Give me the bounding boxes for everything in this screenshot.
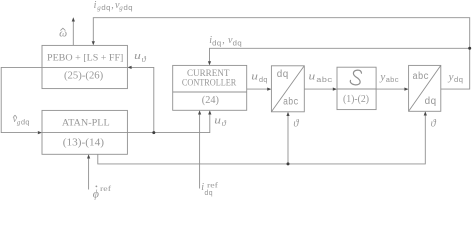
svg-text:abc: abc (386, 77, 399, 85)
label y_dq (448, 72, 464, 85)
label i_dq, v_dq (209, 35, 242, 48)
svg-text:dq: dq (21, 119, 30, 127)
label i_dq-ref input (201, 182, 219, 198)
svg-text:dq: dq (454, 77, 463, 85)
wire top feedback i_gdq,v_gdq from y_dq node to PEBO top (93, 18, 469, 89)
box S system block (337, 67, 376, 109)
box CURRENT CONTROLLER block (173, 65, 247, 110)
svg-text:ϑ: ϑ (431, 118, 437, 129)
label script S (350, 70, 361, 85)
svg-text:(24): (24) (202, 95, 220, 106)
svg-text:(1)-(2): (1)-(2) (343, 94, 369, 105)
svg-text:dq: dq (424, 96, 436, 108)
wire second feedback i_dq,v_dq to CURRENT CONTROLLER top (210, 48, 470, 62)
box dq/abc transform block (271, 66, 304, 112)
label u_dq (251, 72, 267, 85)
label u_theta at PEBO (134, 51, 146, 64)
arrowhead omega-hat up (72, 17, 75, 21)
arrowhead into PEBO right (u_theta) (127, 66, 131, 69)
label phi-dot-ref input (93, 184, 112, 200)
svg-text:i: i (94, 0, 97, 11)
svg-text:ϑ: ϑ (293, 118, 299, 129)
svg-text:abc: abc (316, 77, 333, 85)
wire phi-ref input stub into ATAN-PLL bottom (88, 157, 90, 189)
arrowhead into CURRENT CONTROLLER bottom (i_dq-ref) (198, 110, 201, 114)
arrowhead into abc/dq left (y_abc) (404, 88, 408, 91)
svg-text:u: u (214, 115, 221, 126)
arrowhead into ATAN-PLL left (38, 131, 42, 134)
svg-text:ref: ref (207, 182, 219, 190)
label y_abc (379, 72, 399, 85)
svg-text:,: , (222, 35, 225, 46)
svg-text:dq: dq (259, 77, 268, 85)
junction y_dq feedback branch (468, 47, 471, 50)
svg-text:ATAN-PLL: ATAN-PLL (62, 117, 110, 127)
wire u_abc from dq/abc to S (304, 88, 334, 90)
arrowhead into PEBO top (92, 41, 95, 45)
svg-text:u: u (309, 72, 316, 83)
wire theta bus from ATAN-PLL bottom to abc/dq bottom (98, 114, 426, 164)
svg-text:dq: dq (204, 190, 213, 198)
svg-text:,: , (111, 0, 114, 11)
svg-text:(13)-(14): (13)-(14) (63, 138, 105, 149)
wire omega-hat output up from PEBO top (72, 21, 74, 46)
label omega-hat (59, 28, 67, 40)
wire v_gdq-hat from PEBO left around to ATAN-PLL left input (1, 67, 42, 132)
svg-text:ϑ: ϑ (222, 118, 227, 128)
wire u_theta branch up-left into PEBO right input (131, 67, 154, 132)
box abc/dq transform block (409, 65, 441, 111)
svg-text:PEBO + [LS + FF]: PEBO + [LS + FF] (47, 52, 123, 62)
svg-text:u: u (251, 72, 258, 83)
svg-text:dq: dq (101, 5, 111, 13)
svg-text:dq: dq (212, 40, 222, 48)
wire i_dq-ref input stub into CURRENT CONTROLLER bottom (199, 113, 201, 188)
wire y_abc from S to abc/dq (376, 88, 406, 90)
svg-text:CURRENT: CURRENT (187, 68, 230, 78)
junction u_theta branch (152, 131, 155, 134)
svg-text:ref: ref (100, 184, 112, 193)
arrowhead into abc/dq bottom (theta) (424, 111, 427, 115)
junction theta branch (287, 162, 290, 165)
arrowhead into ATAN-PLL bottom (phi-ref) (87, 154, 90, 158)
svg-text:u: u (134, 51, 141, 62)
arrowhead into S left (u_abc) (333, 88, 337, 91)
label u_abc (309, 72, 333, 85)
svg-text:abc: abc (283, 97, 299, 109)
svg-text:(25)-(26): (25)-(26) (64, 70, 104, 81)
svg-text:dq: dq (123, 5, 133, 13)
svg-text:CONTROLLER: CONTROLLER (182, 78, 236, 88)
arrowhead into CURRENT CONTROLLER top (208, 61, 211, 65)
svg-text:ϑ: ϑ (142, 54, 147, 64)
arrowhead into dq/abc left (u_dq) (267, 88, 271, 91)
svg-text:dq: dq (277, 69, 289, 81)
wire u_dq from CURRENT CONTROLLER to dq/abc (247, 88, 269, 90)
box ATAN-PLL block (42, 110, 127, 154)
box PEBO observer block (42, 45, 127, 88)
label i_gdq, v_gdq (94, 0, 133, 13)
label v_gdq-hat (13, 114, 30, 127)
svg-text:ϕ: ϕ (93, 186, 99, 200)
arrowhead into dq/abc bottom (theta) (286, 112, 289, 116)
svg-text:dq: dq (232, 40, 242, 48)
wire u_theta bus from ATAN-PLL right output to CC bottom (127, 113, 209, 132)
label u_theta at CURRENT CONTROLLER (214, 115, 226, 127)
wire theta branch up into dq/abc bottom (287, 115, 289, 164)
svg-text:abc: abc (412, 71, 429, 83)
arrowhead into CURRENT CONTROLLER bottom (u_theta) (208, 110, 211, 114)
